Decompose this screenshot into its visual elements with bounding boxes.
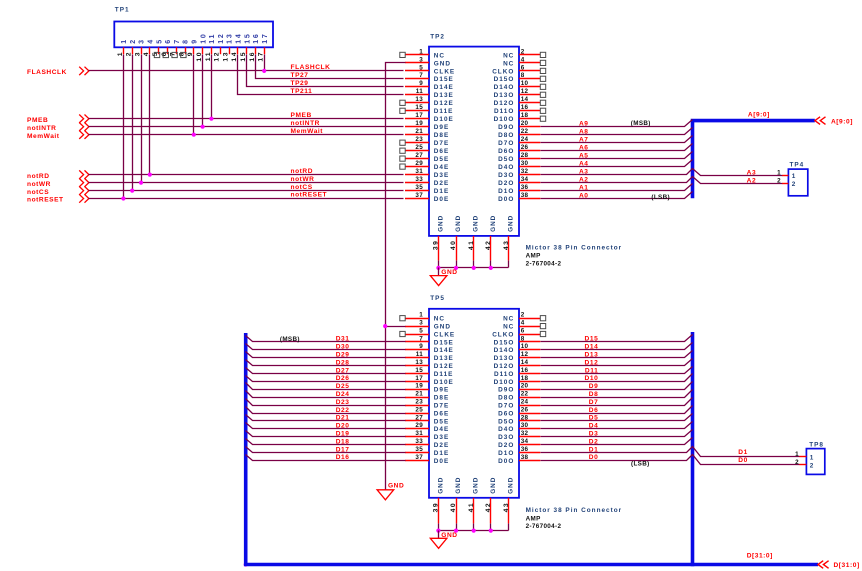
svg-text:17: 17 [415,375,423,382]
junction GND at TP5 pin 3 [383,324,387,328]
svg-text:GND: GND [437,215,444,232]
svg-text:28: 28 [521,414,529,421]
svg-text:GND: GND [434,324,451,331]
no-connect square TP2 pin 16 [540,108,545,113]
TP5 pin 33 (D2E) [405,438,449,449]
TP2 pin 20 (D9O) [498,120,540,131]
wire D18 from bus to TP5 pin 33 [246,439,406,445]
junction TP5 gnd [454,529,458,533]
svg-text:8: 8 [521,72,525,79]
svg-text:17: 17 [415,112,423,119]
svg-text:2: 2 [521,312,525,319]
TP5 pin 41 (GND) [468,477,480,524]
wire FLASHCLK [89,70,404,72]
svg-text:D1: D1 [589,446,599,453]
no-connect square TP2 pin 23 [400,140,405,145]
svg-text:39: 39 [433,502,440,513]
wire D5 into bus [541,414,693,421]
svg-text:A9: A9 [579,121,589,128]
svg-text:A5: A5 [579,152,589,159]
junction FLASHCLK / TP1 pin 17 [262,69,266,73]
svg-text:D7O: D7O [498,140,514,147]
svg-text:D9E: D9E [434,124,449,131]
svg-text:PMEB: PMEB [291,112,312,119]
TP2 pin 15 (D11E) [405,104,453,115]
off-page connector notINTR (input) [79,123,89,131]
connector TP8 body [806,449,824,475]
svg-text:D20: D20 [336,423,350,430]
svg-text:D14: D14 [585,344,599,351]
svg-text:2-767004-2: 2-767004-2 [526,523,562,530]
svg-text:D[31:0]: D[31:0] [747,553,773,560]
svg-text:11: 11 [209,33,216,44]
svg-text:GND: GND [441,532,457,539]
off-page connector FLASHCLK (input) [79,67,89,75]
svg-text:CLKE: CLKE [434,331,455,338]
svg-text:GND: GND [508,215,515,232]
no-connect square TP2 pin 15 [400,108,405,113]
TP5 pin 22 (D8O) [498,391,540,402]
wire A0 into bus [541,192,693,199]
svg-text:38: 38 [521,454,529,461]
svg-text:36: 36 [521,446,529,453]
wire TP2 gnd pin drop [473,261,475,268]
svg-text:42: 42 [485,502,492,513]
bus D[31:0] right vertical [691,332,695,566]
TP2 pin 34 (D2O) [498,176,540,187]
svg-text:D15O: D15O [494,76,515,83]
svg-text:A3: A3 [747,170,757,177]
svg-text:2: 2 [521,48,525,55]
svg-text:D23: D23 [336,399,350,406]
svg-text:D1E: D1E [434,450,449,457]
svg-text:19: 19 [415,383,423,390]
wire A2 through bus to TP4 [541,177,783,184]
TP2 pin 17 (D10E) [405,112,454,123]
TP1 pin 7 [170,38,181,56]
svg-text:D21: D21 [336,415,350,422]
svg-text:D15E: D15E [434,339,454,346]
svg-text:9: 9 [419,80,423,87]
svg-text:notWR: notWR [291,176,315,183]
svg-text:D8O: D8O [498,395,514,402]
svg-text:CLKE: CLKE [434,68,455,75]
svg-text:(MSB): (MSB) [280,336,300,343]
svg-text:16: 16 [521,104,529,111]
TP8 pin 2 [795,459,814,470]
svg-text:8: 8 [178,51,185,56]
svg-text:D3E: D3E [434,434,449,441]
svg-text:6: 6 [521,327,525,334]
TP2 pin 24 (D7O) [498,136,540,147]
TP5 pin 40 (GND) [450,477,462,524]
TP5 pin 12 (D13O) [494,351,541,362]
junction notRESET / TP1 pin 1 [121,196,125,200]
svg-text:D9: D9 [589,383,599,390]
junction notINTR / TP1 pin 10 [201,125,205,129]
junction TP2 gnd [436,266,440,270]
svg-text:D0: D0 [738,457,748,464]
svg-text:10: 10 [521,80,529,87]
svg-text:(LSB): (LSB) [651,194,670,201]
off-page connector MemWait (input) [79,131,89,139]
svg-text:32: 32 [521,430,529,437]
wire D9 into bus [541,382,693,390]
svg-text:D6O: D6O [498,410,514,417]
svg-text:16: 16 [249,51,256,62]
svg-text:D10O: D10O [494,379,515,386]
TP5 pin 5 (CLKE) [405,327,455,338]
svg-text:D6: D6 [589,407,599,414]
svg-text:D4E: D4E [434,164,449,171]
svg-text:11: 11 [416,88,423,95]
svg-text:GND: GND [473,215,480,232]
wire TP1 pin 1 drop to notRESET [123,55,125,199]
svg-text:notCS: notCS [291,184,313,191]
svg-text:15: 15 [415,367,423,374]
no-connect square TP5 pin 4 [540,324,545,329]
TP5 pin 2 (NC) [503,312,540,323]
wire D17 from bus to TP5 pin 35 [246,447,406,453]
no-connect square TP1 pin 8 [181,52,186,57]
TP2 pin 37 (D0E) [405,192,449,203]
svg-text:D11O: D11O [494,108,514,115]
svg-text:13: 13 [415,359,423,366]
wire notINTR [89,126,404,128]
TP5 pin 26 (D6O) [498,406,540,417]
junction TP5 gnd [436,529,440,533]
TP5 pin 19 (D9E) [405,383,449,394]
wire A1 into bus [541,184,693,191]
TP5 pin 25 (D6E) [405,406,449,417]
svg-text:A3: A3 [579,168,589,175]
TP5 pin 43 (GND) [503,477,515,524]
svg-text:Mictor 38 Pin Connector: Mictor 38 Pin Connector [526,244,623,251]
svg-text:14: 14 [521,359,529,366]
wire PMEB [89,118,404,120]
TP1 pin 11 [205,33,216,61]
svg-text:TP29: TP29 [291,80,309,87]
TP2 pin 2 (NC) [503,48,540,59]
TP5 pin 16 (D11O) [494,367,540,378]
svg-text:11: 11 [416,351,423,358]
TP2 pin 9 (D14E) [405,80,454,91]
TP5 pin 3 (GND) [405,320,451,331]
svg-text:D12: D12 [585,359,599,366]
svg-text:GND: GND [441,269,457,276]
svg-text:13: 13 [222,51,229,62]
TP2 pin 5 (CLKE) [405,64,455,75]
TP2 pin 32 (D3O) [498,168,540,179]
svg-text:18: 18 [521,375,529,382]
svg-text:D8E: D8E [434,132,449,139]
svg-text:13: 13 [227,32,234,43]
wire A9 into bus [541,120,693,127]
svg-text:D5E: D5E [434,418,449,425]
no-connect square TP2 pin 18 [540,116,545,121]
svg-text:D25: D25 [336,383,350,390]
svg-text:1: 1 [419,48,423,55]
svg-text:D27: D27 [336,367,350,374]
svg-text:D18: D18 [336,438,350,445]
wire TP2 gnd pin drop [490,261,492,268]
svg-text:A8: A8 [579,129,589,136]
wire D7 into bus [541,398,693,406]
junction TP2 gnd [454,266,458,270]
wire notCS [89,190,404,192]
svg-text:D17: D17 [336,446,350,453]
svg-text:D19: D19 [336,431,350,438]
no-connect square TP1 pin 5 [154,52,159,57]
wire D14 into bus [541,343,693,350]
junction TP2 gnd [472,266,476,270]
wire D3 into bus [541,430,693,437]
TP2 pin 39 (GND) [433,215,445,261]
svg-text:TP8: TP8 [809,442,824,449]
svg-text:D3E: D3E [434,172,449,179]
svg-text:12: 12 [218,32,225,43]
wire D12 into bus [541,359,693,366]
TP1 pin 3 [134,38,145,56]
wire A5 into bus [541,152,693,159]
wire TP2 gnd stem [438,268,440,276]
svg-text:43: 43 [503,240,510,251]
TP5 pin 42 (GND) [485,477,497,524]
svg-text:D12E: D12E [434,100,454,107]
TP5 pin 21 (D8E) [405,391,449,402]
TP2 pin 26 (D6O) [498,144,540,155]
TP2 pin 14 (D12O) [494,96,541,107]
svg-text:D15: D15 [585,336,599,343]
svg-text:D9O: D9O [498,387,514,394]
TP1 pin 6 [161,38,172,56]
wire TP2 gnd pin drop [456,261,458,268]
svg-text:12: 12 [521,88,529,95]
svg-text:21: 21 [415,391,423,398]
no-connect square TP2 pin 27 [400,156,405,161]
TP2 pin 1 (NC) [405,48,445,59]
no-connect square TP2 pin 10 [540,84,545,89]
svg-text:10: 10 [521,343,529,350]
wire D31 from bus to TP5 pin 7 [246,336,406,342]
svg-text:8: 8 [521,335,525,342]
TP2 pin 25 (D6E) [405,144,449,155]
TP5 pin 30 (D4O) [498,422,540,433]
off-page connector notCS (input) [79,186,89,194]
wire TP2 gnd pin drop [438,261,440,268]
svg-text:GND: GND [455,215,462,232]
svg-text:GND: GND [473,477,480,494]
bus D[31:0] left and bottom [246,333,818,565]
no-connect square TP1 pin 7 [172,52,177,57]
svg-text:16: 16 [521,367,529,374]
junction TP2 gnd [489,266,493,270]
TP2 pin 29 (D4E) [405,160,449,171]
TP2 pin 43 (GND) [503,215,515,261]
svg-text:40: 40 [450,502,457,513]
TP5 pin 6 (CLKO) [492,327,540,338]
svg-text:33: 33 [415,438,423,445]
svg-text:NC: NC [503,60,514,67]
svg-text:32: 32 [521,168,529,175]
svg-text:18: 18 [521,112,529,119]
wire GND to TP5 pin 3 [386,326,406,328]
svg-text:2: 2 [795,459,799,466]
svg-text:D5O: D5O [498,156,514,163]
svg-text:13: 13 [415,96,423,103]
TP5 pin 32 (D3O) [498,430,540,441]
svg-text:4: 4 [521,320,525,327]
TP5 pin 13 (D12E) [405,359,454,370]
wire TP1 pin 11 drop to PMEB [211,55,213,119]
svg-text:5: 5 [152,51,159,56]
wire TP2 gnd bus [439,267,509,269]
svg-text:1: 1 [795,451,799,458]
wire A7 into bus [541,136,693,143]
svg-text:D8O: D8O [498,132,514,139]
TP5 pin 10 (D14O) [494,343,541,354]
svg-text:D15O: D15O [494,339,515,346]
junction TP5 gnd [489,529,493,533]
svg-text:26: 26 [521,144,529,151]
wire A3 through bus to TP4 [541,169,783,176]
TP5 pin 20 (D9O) [498,383,540,394]
svg-text:10: 10 [200,32,207,43]
svg-text:9: 9 [419,343,423,350]
svg-text:D10E: D10E [434,379,454,386]
wire D15 into bus [541,335,693,342]
svg-text:D6E: D6E [434,148,449,155]
wire A8 into bus [541,128,693,135]
wire D13 into bus [541,351,693,358]
TP5 pin 7 (D15E) [405,335,454,346]
off-page connector notWR (input) [79,178,89,186]
svg-text:20: 20 [521,383,529,390]
svg-text:D10: D10 [585,375,599,382]
svg-text:D4E: D4E [434,426,449,433]
wire D11 into bus [541,367,693,374]
wire D16 from bus to TP5 pin 37 [246,455,406,461]
svg-text:27: 27 [415,152,423,159]
junction at bus corner [244,562,248,566]
svg-text:notWR: notWR [27,181,51,188]
wire D25 from bus to TP5 pin 19 [246,383,406,390]
svg-text:GND: GND [437,477,444,494]
svg-text:GND: GND [490,477,497,494]
TP4 pin 2 [777,177,796,188]
svg-text:1: 1 [810,455,815,462]
svg-text:3: 3 [419,320,423,327]
svg-text:D13E: D13E [434,92,454,99]
TP1 pin 10 [196,32,207,61]
TP2 pin 10 (D14O) [494,80,541,91]
svg-text:A2: A2 [747,178,757,185]
svg-text:D7: D7 [589,399,599,406]
wire D4 into bus [541,422,693,429]
TP5 pin 9 (D14E) [405,343,454,354]
svg-text:D5E: D5E [434,156,449,163]
svg-text:D5O: D5O [498,418,514,425]
svg-text:D13: D13 [585,352,599,359]
svg-text:25: 25 [415,406,423,413]
TP5 pin 38 (D0O) [498,454,540,465]
TP2 pin 21 (D8E) [405,128,449,139]
svg-text:D30: D30 [336,344,350,351]
svg-text:D11E: D11E [434,108,454,115]
svg-text:FLASHCLK: FLASHCLK [291,64,331,71]
TP4 pin 1 [777,169,796,180]
no-connect square TP2 pin 12 [540,92,545,97]
svg-text:9: 9 [192,38,199,44]
svg-text:GND: GND [388,482,404,489]
wire TP1 pin 9 drop to MemWait [193,55,195,135]
TP2 pin 3 (GND) [405,56,451,67]
wire D26 from bus to TP5 pin 17 [246,376,406,382]
svg-text:GND: GND [455,477,462,494]
svg-text:43: 43 [503,502,510,513]
svg-text:34: 34 [521,176,529,183]
off-page connector A[9:0] (output) [815,117,826,125]
off-page connector D[31:0] (output) [818,561,829,569]
svg-text:2: 2 [777,177,781,184]
svg-text:20: 20 [521,120,529,127]
wire TP2 gnd pin drop [508,261,510,268]
wire notRD [89,174,404,176]
TP2 pin 18 (D10O) [494,112,541,123]
svg-text:D26: D26 [336,375,350,382]
svg-text:41: 41 [468,502,475,513]
TP5 pin 34 (D2O) [498,438,540,449]
no-connect square TP5 pin 2 [540,316,545,321]
svg-text:D2O: D2O [498,180,514,187]
wire TP5 gnd bus [439,530,509,532]
svg-text:notINTR: notINTR [27,125,57,132]
TP1 pin 5 [152,38,163,56]
svg-text:D8E: D8E [434,395,449,402]
TP2 pin 36 (D1O) [498,184,540,195]
wire TP5 gnd pin drop [456,524,458,531]
svg-text:D14O: D14O [494,84,515,91]
svg-text:GND: GND [508,477,515,494]
svg-text:D1O: D1O [498,450,514,457]
svg-text:12: 12 [521,351,529,358]
TP5 pin 8 (D15O) [494,335,541,346]
svg-text:D2: D2 [589,438,599,445]
svg-text:D7O: D7O [498,403,514,410]
svg-text:notRD: notRD [27,173,50,180]
TP1 pin 8 [178,38,189,56]
svg-text:D13E: D13E [434,355,454,362]
svg-text:D9O: D9O [498,124,514,131]
svg-text:D12O: D12O [494,100,515,107]
svg-text:D24: D24 [336,391,350,398]
wire D20 from bus to TP5 pin 29 [246,423,406,429]
no-connect square TP2 pin 25 [400,148,405,153]
svg-text:19: 19 [415,120,423,127]
svg-text:D29: D29 [336,352,350,359]
wire D22 from bus to TP5 pin 25 [246,407,406,414]
TP2 pin 30 (D4O) [498,160,540,171]
svg-text:15: 15 [244,32,251,43]
svg-text:23: 23 [415,399,423,406]
wire D8 into bus [541,390,693,398]
svg-text:NC: NC [434,52,445,59]
wire TP5 gnd pin drop [490,524,492,531]
TP2 pin 40 (GND) [450,215,462,261]
TP2 pin 31 (D3E) [405,168,449,179]
svg-text:35: 35 [415,446,423,453]
TP2 pin 8 (D15O) [494,72,541,83]
